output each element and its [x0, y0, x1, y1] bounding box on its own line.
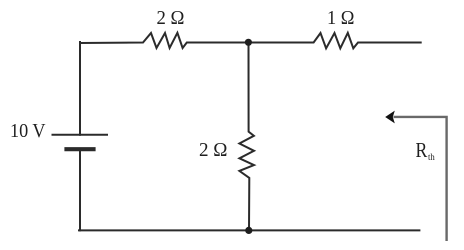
svg-text:th: th	[428, 153, 435, 163]
svg-text:10 V: 10 V	[10, 120, 46, 142]
svg-text:2 Ω: 2 Ω	[157, 7, 185, 29]
svg-text:1 Ω: 1 Ω	[327, 7, 355, 29]
svg-text:R: R	[416, 138, 428, 162]
svg-text:2 Ω: 2 Ω	[199, 139, 228, 161]
